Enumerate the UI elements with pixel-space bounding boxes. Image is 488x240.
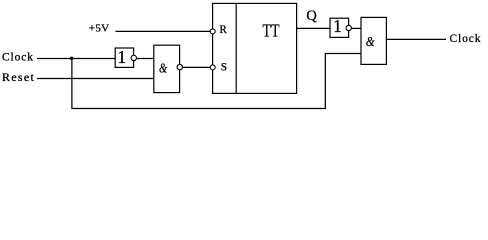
- svg-text:Reset: Reset: [2, 70, 34, 84]
- wire D1.2 bubble to S input of flip-flop: [183, 66, 211, 68]
- svg-text:Clock: Clock: [2, 52, 33, 64]
- wire U1 bubble to AND D1.2 upper input: [137, 58, 155, 60]
- inverter U1 output bubble: [131, 55, 136, 60]
- svg-text:TT: TT: [263, 20, 280, 40]
- svg-text:&: &: [159, 60, 167, 76]
- wire junction down: [71, 58, 73, 108]
- flip-flop R input bubble: [210, 29, 215, 34]
- wire Reset to AND D1.2 lower input: [37, 78, 154, 80]
- inverter U2 output bubble: [346, 25, 351, 30]
- svg-text:+5V: +5V: [89, 23, 109, 35]
- inverter U1 (left "1" box): [115, 48, 133, 67]
- inverter U2 (right "1" box): [330, 18, 349, 37]
- flip-flop D2 (TT box): [213, 3, 297, 93]
- wire Clock input to inverter D1.1: [37, 58, 116, 60]
- svg-text:R: R: [219, 24, 227, 36]
- wire feedback into AND D1.4 lower input: [325, 53, 362, 55]
- junction on Clock line: [70, 57, 73, 60]
- svg-text:1: 1: [333, 16, 342, 36]
- svg-text:&: &: [366, 34, 375, 49]
- flip-flop S input bubble: [210, 65, 215, 70]
- AND gate D1.2 output bubble: [177, 64, 182, 69]
- AND gate D1.2 (left "&" box): [154, 45, 180, 92]
- wire +5V to R input of flip-flop: [116, 30, 211, 32]
- wire Q output of flip-flop: [297, 27, 331, 29]
- svg-text:S: S: [221, 62, 227, 74]
- svg-text:Q: Q: [306, 8, 317, 24]
- AND gate D1.4 (right "&" box): [361, 17, 386, 64]
- wire bottom feedback run: [71, 108, 325, 110]
- wire feedback riser: [324, 54, 326, 110]
- svg-text:1: 1: [117, 47, 126, 67]
- wire U2 bubble to AND D1.4 upper input: [351, 27, 361, 29]
- flip-flop D2 control field divider: [235, 3, 237, 93]
- svg-text:Clock: Clock: [450, 33, 481, 45]
- wire D1.4 output to Clock output: [386, 38, 446, 40]
